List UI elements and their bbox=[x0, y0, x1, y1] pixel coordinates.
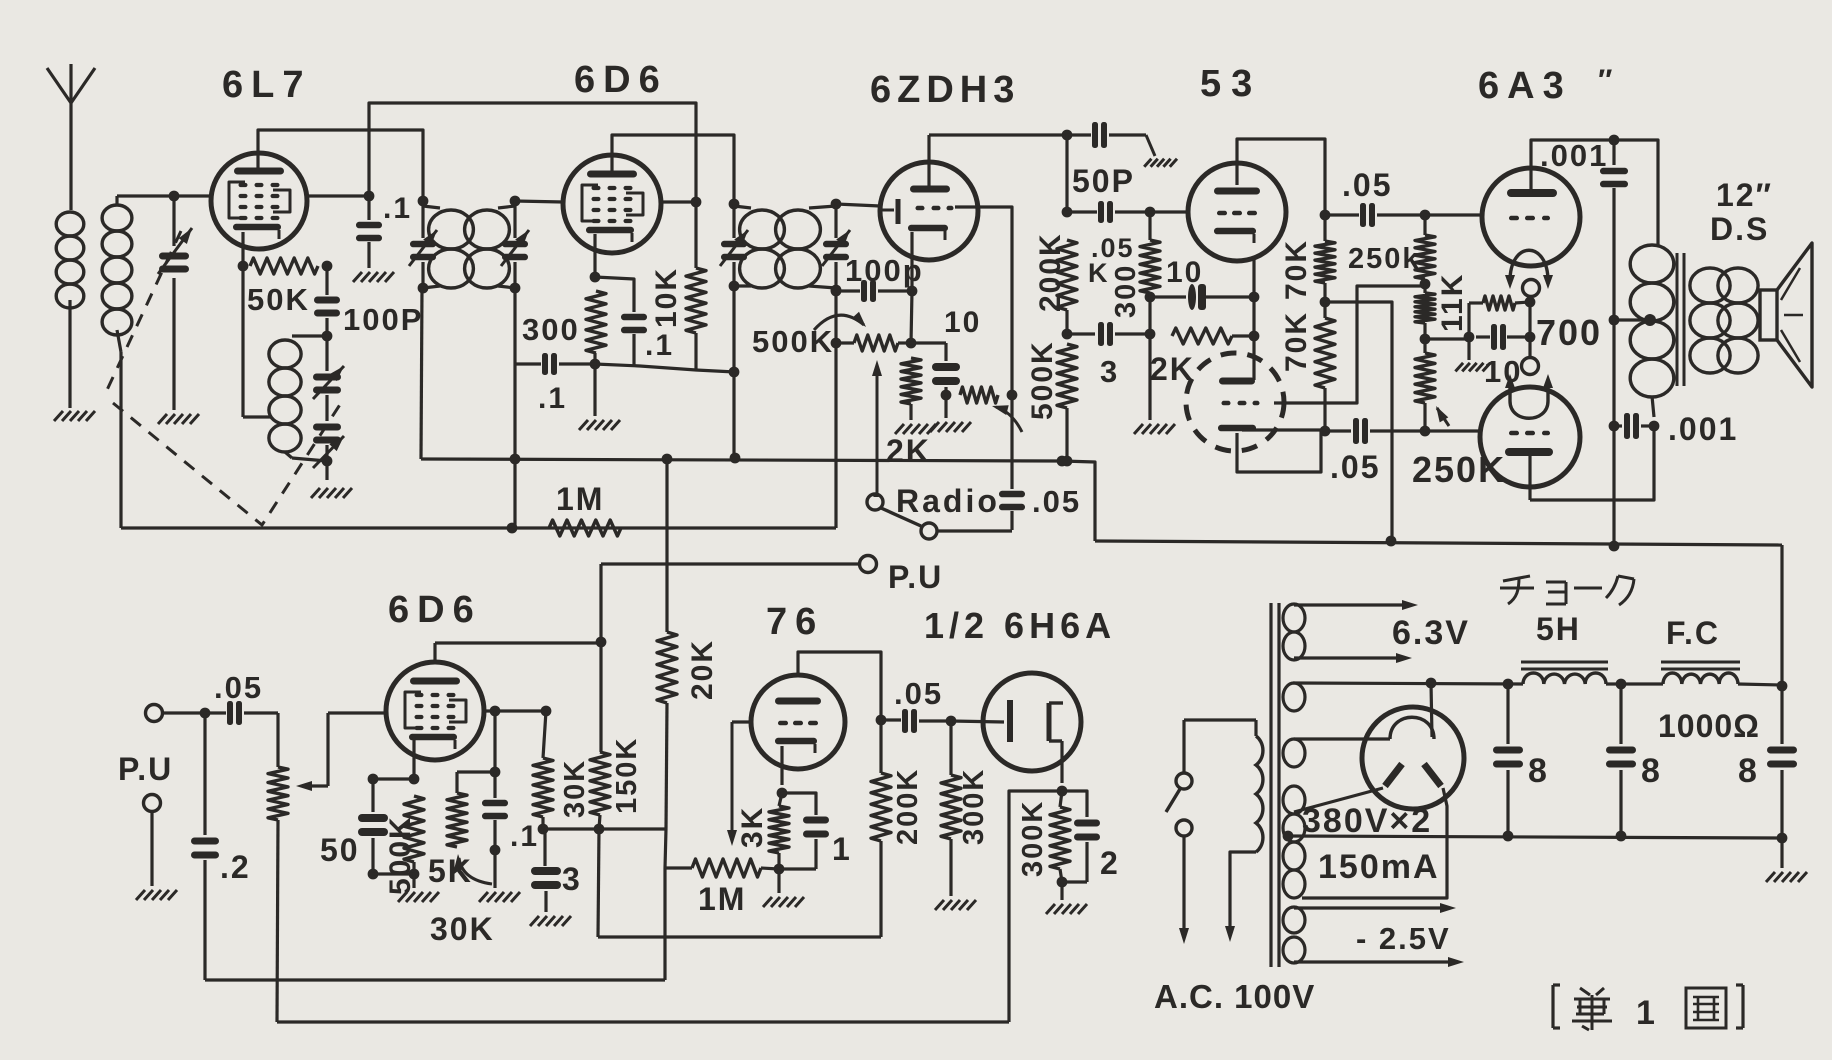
speaker bbox=[1760, 243, 1812, 387]
svg-text:5H: 5H bbox=[1536, 611, 1581, 647]
capacitor .05 radio bbox=[999, 491, 1025, 530]
label 500K chain bbox=[1026, 340, 1059, 420]
terminal P.U top bbox=[860, 556, 877, 573]
rail AVC dots bbox=[510, 453, 1068, 467]
svg-text:50: 50 bbox=[320, 832, 360, 868]
resistor 30K var bbox=[447, 772, 492, 884]
resistor 3K bbox=[769, 793, 789, 874]
capacitor .2 bbox=[191, 713, 219, 980]
svg-text:10: 10 bbox=[944, 306, 981, 339]
PT sec rect fil bbox=[1283, 683, 1390, 767]
capacitor 8b bbox=[1606, 684, 1636, 841]
svg-text:1/2 6H6A: 1/2 6H6A bbox=[924, 605, 1116, 646]
wire 6D6b plate bbox=[484, 706, 551, 717]
ground CT bbox=[1766, 872, 1807, 882]
label 10 6A3 bbox=[1484, 354, 1522, 389]
label 100p bbox=[845, 253, 924, 288]
svg-text:50P: 50P bbox=[1072, 163, 1135, 199]
arrow 1M pot bbox=[727, 722, 737, 846]
IFT1 primary coil bbox=[423, 206, 473, 288]
antenna coil L1 bbox=[56, 212, 84, 408]
label 150mA bbox=[1318, 848, 1440, 886]
label 2K det bbox=[886, 433, 931, 469]
wire IFT1 to 6D6 grid bbox=[515, 201, 563, 202]
wire .001 down bbox=[1609, 320, 1620, 551]
terminal 6A3b fil bbox=[1522, 358, 1539, 375]
wire 76 grid bbox=[732, 720, 751, 723]
svg-text:200K: 200K bbox=[1034, 232, 1067, 312]
ground 10 6A3 bbox=[1455, 337, 1490, 371]
svg-text:.05: .05 bbox=[1032, 484, 1081, 519]
resistor 70K a bbox=[1315, 215, 1335, 307]
wire topcap 6D6b bbox=[435, 643, 601, 661]
IFT2 primary cap bbox=[720, 199, 748, 292]
label D.S bbox=[1710, 211, 1769, 247]
terminal P.U in1 bbox=[146, 705, 211, 722]
bus ground A bbox=[205, 978, 665, 981]
label 300K b bbox=[1017, 800, 1049, 877]
wire 6D6b grid bbox=[328, 711, 386, 714]
dashed gang line B bbox=[113, 403, 341, 525]
tube 6D6 af bbox=[386, 662, 484, 760]
svg-text:500K: 500K bbox=[384, 815, 417, 895]
wire 6L7 plate bbox=[258, 130, 423, 201]
svg-text:6ZDH3: 6ZDH3 bbox=[870, 69, 1020, 111]
capacitor .05 top bbox=[1325, 203, 1430, 227]
node screen .1 bbox=[364, 191, 375, 202]
label 100P bbox=[343, 302, 423, 337]
label 10 53 bbox=[1166, 256, 1203, 289]
resistor 300K b bbox=[1050, 791, 1070, 900]
label choke bbox=[1500, 576, 1634, 605]
svg-text:20K: 20K bbox=[686, 639, 719, 700]
resistor 150K bbox=[590, 642, 610, 834]
tuning capacitor C1 bbox=[158, 196, 192, 410]
svg-text:.05: .05 bbox=[214, 670, 263, 705]
ground 300K a bbox=[935, 900, 976, 910]
ground 300ohm bbox=[1134, 424, 1175, 434]
var resistor cath bbox=[960, 387, 1017, 403]
tube 6ZDH3 bbox=[880, 162, 978, 260]
svg-text:1M: 1M bbox=[698, 881, 746, 917]
antenna bbox=[47, 64, 95, 210]
label 300ohm bbox=[1110, 264, 1142, 318]
PT core bbox=[1271, 603, 1279, 967]
wire 53 grid bbox=[1150, 210, 1188, 213]
switch radio bbox=[867, 494, 1012, 539]
wire AC feed bbox=[1184, 718, 1256, 721]
svg-text:12″: 12″ bbox=[1716, 177, 1773, 213]
label 250k upper bbox=[1348, 243, 1421, 275]
svg-text:5K: 5K bbox=[428, 853, 473, 889]
svg-text:6.3V: 6.3V bbox=[1392, 614, 1470, 652]
svg-text:70K: 70K bbox=[1280, 239, 1313, 300]
label 380Vx2 bbox=[1302, 802, 1432, 840]
capacitor .001 top bbox=[1600, 140, 1628, 325]
label 50K bbox=[247, 282, 310, 317]
resistor 300 bbox=[586, 291, 606, 369]
label 1 bbox=[832, 831, 852, 867]
ground 3 af bbox=[530, 916, 571, 926]
wire chain down1 bbox=[1062, 135, 1073, 217]
svg-text:500K: 500K bbox=[752, 324, 834, 359]
label 1M bottom bbox=[698, 881, 746, 917]
resistor 200K af bbox=[871, 720, 891, 937]
tube 53 lower bbox=[1186, 353, 1284, 451]
label 6L7 bbox=[222, 64, 311, 106]
label 2K 53 bbox=[1150, 351, 1195, 387]
label .1 row bbox=[538, 382, 567, 415]
wire 53b cath loop bbox=[1237, 431, 1321, 472]
label 5K bbox=[428, 853, 473, 889]
capacitor 50 bbox=[358, 779, 388, 879]
label 30K var bbox=[430, 911, 495, 947]
svg-text:.05: .05 bbox=[1342, 167, 1392, 203]
label 53 bbox=[1200, 63, 1262, 105]
label 6D6 af bbox=[388, 589, 482, 631]
svg-text:.001: .001 bbox=[1540, 138, 1608, 173]
svg-text:100p: 100p bbox=[845, 253, 924, 288]
wire pu down bbox=[596, 564, 607, 647]
capacitor .05 pu bbox=[205, 701, 278, 725]
label .1 af bbox=[510, 820, 539, 853]
label 50 bbox=[320, 832, 360, 868]
svg-text:2K: 2K bbox=[886, 433, 931, 469]
label 10K bbox=[650, 267, 683, 328]
svg-text:50K: 50K bbox=[247, 282, 310, 317]
resistor 300K a bbox=[941, 721, 961, 896]
label 200K bbox=[1034, 232, 1067, 312]
label K.05 bbox=[1088, 233, 1135, 288]
tube 6A3 upper bbox=[1482, 168, 1580, 281]
tube 6L7 bbox=[211, 153, 307, 249]
wire IFT1 sec down bbox=[513, 288, 516, 530]
IFT1 primary cap bbox=[409, 196, 437, 294]
wire 6ZDH3 plate bbox=[927, 135, 930, 186]
capacitor 8c bbox=[1767, 685, 1797, 843]
capacitor 8a bbox=[1493, 684, 1523, 841]
wire IFT2 pri down bbox=[729, 286, 740, 458]
wire screen bus top bbox=[369, 103, 696, 202]
label .05 pu bbox=[214, 670, 263, 705]
resistor 20K bbox=[657, 459, 677, 980]
svg-text:300: 300 bbox=[522, 312, 580, 347]
label .001 bot bbox=[1668, 411, 1738, 447]
label .05 76 bbox=[894, 676, 943, 711]
wire screen drop bbox=[457, 711, 500, 777]
svg-text:100P: 100P bbox=[343, 302, 423, 337]
rail AVC bbox=[421, 459, 1095, 541]
IFT2 primary coil bbox=[734, 206, 784, 288]
svg-text:3: 3 bbox=[1100, 354, 1119, 389]
arrow AC2 bbox=[1225, 926, 1235, 942]
wire diode right bbox=[955, 207, 1012, 395]
svg-text:8: 8 bbox=[1738, 752, 1759, 790]
label -2.5V bbox=[1356, 921, 1451, 956]
label 30K fix bbox=[559, 759, 591, 818]
svg-text:300K: 300K bbox=[1017, 800, 1049, 877]
capacitor .05 76 bbox=[881, 709, 956, 733]
osc padder cap bbox=[313, 336, 344, 421]
wire 53b grid bbox=[1274, 286, 1423, 403]
label 200K af bbox=[892, 768, 924, 845]
svg-text:10: 10 bbox=[1166, 256, 1203, 289]
label 6.3V bbox=[1392, 614, 1470, 652]
capacitor 50P bbox=[1067, 122, 1155, 156]
arrow var cath bbox=[992, 405, 1022, 432]
ground 300 bbox=[579, 364, 620, 430]
wire 6A3a grid bbox=[1425, 213, 1482, 216]
IFT1 secondary cap bbox=[501, 196, 529, 294]
capacitor .1 screen bbox=[356, 196, 382, 268]
wire rect plate right bbox=[1302, 788, 1447, 898]
capacitor .05 bot bbox=[1325, 418, 1430, 444]
svg-text:3: 3 bbox=[562, 861, 582, 897]
pot 500K af bbox=[268, 713, 288, 1022]
wire IFT2 sec down bbox=[831, 285, 842, 528]
capacitor 2 bbox=[1062, 791, 1100, 882]
wire 1M2 row bbox=[665, 866, 692, 869]
terminal 6A3a fil bbox=[1523, 280, 1540, 297]
label 3 bbox=[1100, 354, 1119, 389]
resistor 1M bottom bbox=[692, 859, 779, 877]
label .1 if bbox=[645, 329, 674, 362]
label 5H bbox=[1536, 611, 1581, 647]
wire 70K mid B+ bbox=[1325, 302, 1396, 546]
ground 3K bbox=[763, 869, 804, 907]
svg-text:.05: .05 bbox=[1330, 449, 1380, 485]
wire 53b plate bbox=[1242, 428, 1325, 431]
ground .1 bbox=[353, 272, 394, 282]
label .05 bot bbox=[1330, 449, 1380, 485]
svg-text:70K: 70K bbox=[1280, 311, 1313, 372]
filament arrows 6A3b bbox=[1505, 374, 1553, 388]
svg-text:1M: 1M bbox=[556, 481, 604, 517]
label .1 bbox=[383, 192, 412, 225]
wire 6D6 plate top bbox=[612, 135, 734, 204]
osc trimmer cap bbox=[313, 424, 344, 469]
resistor 1M top bbox=[549, 520, 621, 536]
wire diode cap bbox=[1010, 395, 1013, 489]
OPT tap bbox=[1614, 314, 1656, 326]
wire 6L7 screen bbox=[307, 194, 369, 197]
svg-text:1000Ω: 1000Ω bbox=[1658, 708, 1760, 744]
svg-text:8: 8 bbox=[1528, 752, 1549, 790]
resistor 11K bbox=[1415, 284, 1435, 344]
wire OPT to 6A3b bbox=[1530, 426, 1654, 500]
svg-text:.1: .1 bbox=[383, 192, 412, 225]
IFT2 secondary coil bbox=[776, 206, 836, 288]
tube 76 bbox=[751, 675, 845, 769]
label 1000 bbox=[1658, 708, 1760, 744]
svg-text:380V×2: 380V×2 bbox=[1302, 802, 1432, 840]
svg-text:1: 1 bbox=[1636, 994, 1657, 1032]
svg-text:K: K bbox=[1088, 258, 1110, 288]
wire 6A3a plate bbox=[1531, 135, 1658, 245]
label F.C bbox=[1666, 615, 1720, 651]
wire 6A3b grid bbox=[1425, 429, 1482, 432]
svg-text:300: 300 bbox=[1110, 264, 1142, 318]
rail B+ mid bbox=[1095, 541, 1782, 545]
bus AVC2 bbox=[121, 523, 836, 534]
wire 6D6 right bbox=[661, 197, 701, 208]
svg-text:6L7: 6L7 bbox=[222, 64, 311, 106]
capacitor 1 bbox=[779, 793, 829, 869]
bus ground B bbox=[277, 1020, 1009, 1023]
svg-text:10K: 10K bbox=[650, 267, 683, 328]
svg-text:8: 8 bbox=[1641, 752, 1662, 790]
wire to 6H6A bbox=[951, 721, 1004, 722]
capacitor 10 6A3 bbox=[1476, 324, 1535, 350]
wire 6D6 cath row bbox=[595, 364, 735, 372]
ground osc bbox=[311, 488, 352, 498]
svg-text:700: 700 bbox=[1536, 312, 1602, 353]
capacitor .1 row bbox=[515, 353, 595, 375]
tube 6D6 if bbox=[563, 155, 661, 253]
svg-text:″: ″ bbox=[1598, 64, 1614, 97]
ground 2K det bbox=[895, 424, 936, 434]
label 2 bbox=[1100, 845, 1120, 881]
label .001 top bbox=[1540, 138, 1608, 173]
wire spk top bbox=[0, 0, 1, 1]
label 50P bbox=[1072, 163, 1135, 199]
OPT primary bottom bbox=[1652, 396, 1654, 417]
label 6ZDH3 bbox=[870, 69, 1020, 111]
pot 500K diode bbox=[831, 335, 911, 351]
svg-text:150mA: 150mA bbox=[1318, 848, 1440, 886]
svg-text:6D6: 6D6 bbox=[574, 59, 668, 101]
OPT primary bbox=[1630, 245, 1674, 397]
rail B+ right bbox=[1738, 681, 1787, 692]
label 10 det bbox=[944, 306, 981, 339]
svg-text:- 2.5V: - 2.5V bbox=[1356, 921, 1451, 956]
svg-text:2: 2 bbox=[1100, 845, 1120, 881]
node 200K bot bbox=[1062, 310, 1073, 339]
capacitor 10 53 bbox=[1150, 284, 1259, 310]
wire bias tap bbox=[1425, 337, 1469, 340]
label P.U in bbox=[118, 751, 173, 787]
choke FC bbox=[1661, 662, 1740, 684]
label 500K af bbox=[384, 815, 417, 895]
ground 300K b bbox=[1046, 904, 1087, 914]
resistor 70K b bbox=[1315, 302, 1335, 436]
svg-text:.05: .05 bbox=[894, 676, 943, 711]
svg-text:A.C. 100V: A.C. 100V bbox=[1154, 978, 1315, 1015]
wire row to937 bbox=[598, 829, 881, 937]
resistor 250K lower bbox=[1415, 339, 1435, 431]
capacitor 3 af bbox=[531, 829, 561, 912]
svg-text:1: 1 bbox=[832, 831, 852, 867]
capacitor 3 bbox=[1067, 322, 1150, 346]
label 1M top bbox=[556, 481, 604, 517]
IFT2 secondary cap bbox=[822, 199, 850, 290]
wire IFT2 to 6ZDH3 bbox=[836, 204, 880, 206]
tube 6H6A bbox=[983, 673, 1081, 771]
svg-text:Radio: Radio bbox=[896, 483, 1000, 519]
arrow AC1 bbox=[1179, 928, 1189, 944]
resistor 700 bbox=[1464, 296, 1536, 342]
svg-text:D.S: D.S bbox=[1710, 211, 1769, 247]
svg-text:.2: .2 bbox=[220, 849, 251, 885]
label .05 radio bbox=[1032, 484, 1081, 519]
OPT secondary bbox=[1690, 268, 1758, 373]
dashed gang line A bbox=[107, 231, 181, 390]
tube rectifier bbox=[1362, 707, 1464, 809]
ground 50P bbox=[1144, 159, 1177, 167]
svg-text:150K: 150K bbox=[611, 737, 643, 814]
resistor 300ohm bbox=[1140, 212, 1160, 420]
tube 6A3 lower bbox=[1480, 385, 1580, 500]
capacitor .001 bot bbox=[1609, 413, 1660, 439]
switch AC bbox=[1166, 720, 1192, 932]
OPT core bbox=[1677, 253, 1684, 386]
label 70K 70K bbox=[1280, 239, 1313, 372]
svg-text:200K: 200K bbox=[892, 768, 924, 845]
resistor 2K 53 bbox=[1172, 328, 1259, 344]
svg-text:11K: 11K bbox=[1436, 273, 1469, 332]
wire IFT1 primary B+ bbox=[421, 288, 422, 459]
ground .1 af bbox=[479, 892, 520, 902]
ground 10 det bbox=[930, 422, 971, 432]
cathode 6D6b bbox=[368, 737, 420, 784]
capacitor 100P bbox=[314, 266, 340, 341]
tube 53 upper bbox=[1188, 163, 1286, 261]
svg-text:P.U: P.U bbox=[888, 559, 943, 595]
svg-text:500K: 500K bbox=[1026, 340, 1059, 420]
cathode 6D6 lead bbox=[590, 234, 601, 282]
wire 6H6A down bbox=[1009, 791, 1062, 1022]
wire cath down bbox=[906, 291, 917, 348]
label 250K lower bbox=[1412, 449, 1506, 490]
rail CT bbox=[1288, 836, 1782, 838]
svg-text:250k: 250k bbox=[1348, 243, 1421, 275]
label 76 bbox=[766, 601, 824, 643]
cathode 6H6A bbox=[1057, 741, 1068, 796]
PT sec 6.3V bbox=[1283, 600, 1418, 663]
wire 6A3b fil bbox=[1528, 302, 1531, 357]
row 30K 150K bbox=[538, 824, 666, 835]
resistor 10K bbox=[686, 202, 706, 370]
ground 5K bbox=[398, 874, 439, 902]
label 6A3 bbox=[1478, 64, 1614, 107]
svg-text:.001: .001 bbox=[1668, 411, 1738, 447]
resistor 500K chain bbox=[1057, 344, 1077, 466]
wire 53 cath bbox=[1252, 260, 1255, 380]
svg-text:53: 53 bbox=[1200, 63, 1262, 105]
rail B+ top bbox=[1293, 679, 1523, 690]
choke 5H bbox=[1521, 662, 1608, 684]
resistor 2K det bbox=[901, 358, 921, 420]
label 20K bbox=[686, 639, 719, 700]
svg-text:6D6: 6D6 bbox=[388, 589, 482, 631]
label 8b bbox=[1641, 752, 1662, 790]
wire CT ground bbox=[1780, 838, 1783, 868]
svg-text:F.C: F.C bbox=[1666, 615, 1720, 651]
wire cathode osc bbox=[243, 266, 272, 417]
wire 53 plate loop bbox=[1237, 139, 1330, 220]
cathode 76 bbox=[777, 746, 788, 798]
capacitor 10 det bbox=[911, 343, 960, 418]
label 300K a bbox=[958, 768, 990, 845]
wire plate row bbox=[929, 130, 1072, 141]
capacitor K.05 bbox=[1067, 201, 1155, 223]
wire 76 plate bbox=[798, 652, 886, 725]
ground C1 bbox=[158, 414, 199, 424]
svg-text:.1: .1 bbox=[645, 329, 674, 362]
PT sec HV bbox=[1283, 786, 1305, 898]
coil L2 secondary bbox=[102, 196, 132, 528]
label 12in bbox=[1716, 177, 1773, 213]
